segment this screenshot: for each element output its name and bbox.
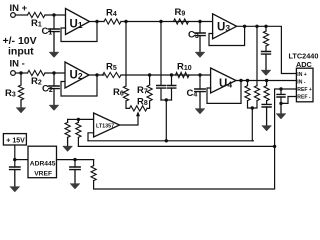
IC LTC2440 box <box>296 68 313 102</box>
node A2 junction <box>124 20 127 23</box>
svg-text:IN -: IN - <box>10 59 25 70</box>
wire U1 feedback <box>61 22 97 42</box>
node A4 junction <box>198 20 201 23</box>
wire node B3 down to cap <box>171 75 173 86</box>
capacitor C4 <box>195 89 205 92</box>
IC ADR445 VREF <box>28 146 57 178</box>
svg-text:IN -: IN - <box>297 79 306 85</box>
wire IN+ to R1 <box>15 14 27 16</box>
node B3 junction <box>170 73 173 76</box>
capacitor C2 <box>49 86 59 89</box>
resistor CM B <box>245 86 250 101</box>
svg-text:U1: U1 <box>70 19 83 31</box>
node common rail junction <box>165 139 168 142</box>
wire caps bottom to common rail <box>165 100 167 141</box>
wire IN- to R2 <box>15 72 27 74</box>
wire divider right to ref rail <box>77 137 79 146</box>
wire node B2 down to R7 <box>149 75 151 85</box>
capacitor C3 <box>195 33 205 36</box>
wire R2 to U2 +in <box>45 72 65 74</box>
svg-text:ADC: ADC <box>296 60 313 69</box>
op-amp U4 <box>211 68 236 93</box>
wire channel B rail <box>121 74 211 76</box>
ground B RC <box>266 107 268 127</box>
capacitor C1 <box>49 29 59 32</box>
svg-text:ADR445: ADR445 <box>30 160 56 167</box>
svg-text:IN +: IN + <box>297 72 307 78</box>
resistor R5 <box>103 72 122 77</box>
node U1 out junction <box>95 20 98 23</box>
resistor R10 <box>176 72 190 77</box>
wire RC B <box>266 101 268 105</box>
wire common rail <box>88 140 253 142</box>
resistor divider right <box>76 122 81 137</box>
node A3 junction <box>159 20 162 23</box>
node B1 junction <box>52 71 55 74</box>
wire divider bridge <box>68 118 79 120</box>
resistor R2 <box>28 70 46 75</box>
ground REF- <box>280 103 282 115</box>
node REF+ bypass junction <box>279 87 282 90</box>
svg-text:REF +: REF + <box>297 87 312 93</box>
ground C1 <box>53 32 55 54</box>
svg-text:LT1357: LT1357 <box>96 124 114 130</box>
node A1 junction <box>52 13 55 16</box>
op-amp U1 <box>66 9 90 35</box>
capacitor B sample <box>167 86 176 89</box>
wire U4 out to ADC IN- <box>236 80 296 82</box>
wire node A5 down <box>256 26 258 85</box>
resistor R9 <box>174 19 189 24</box>
capacitor input bypass <box>10 167 20 170</box>
resistor R1 <box>28 12 46 17</box>
wire node A3 down to cap <box>160 22 162 86</box>
wire LT1357 feedback notch <box>88 133 94 141</box>
wire REF+ riser to ADC <box>275 89 297 146</box>
wire to output cap <box>74 160 76 167</box>
ground VREF bypass <box>74 170 76 185</box>
node U3 out junction <box>243 25 246 28</box>
node CM junction <box>251 106 254 109</box>
op-amp U2 <box>65 62 89 88</box>
wire R1 to U1 +in <box>45 14 66 16</box>
node A6 junction <box>264 25 267 28</box>
wire channel A rail <box>121 21 213 23</box>
wire caps bottom bridge <box>161 99 172 101</box>
potentiometer R8 <box>130 106 148 111</box>
box +15V supply <box>3 134 26 145</box>
wire node B6 to RC <box>266 81 268 86</box>
node U4 out junction <box>239 79 242 82</box>
ground divider <box>67 137 69 147</box>
svg-text:VREF: VREF <box>34 170 52 177</box>
svg-text:REF -: REF - <box>297 95 311 101</box>
node B4 junction <box>198 73 201 76</box>
svg-text:U3: U3 <box>217 22 230 34</box>
node REF- junction <box>279 102 282 105</box>
ground C2 <box>53 89 55 107</box>
node divider junction <box>77 118 80 121</box>
resistor VREF series <box>91 166 96 181</box>
wire node B5 to R <box>247 81 249 86</box>
ground R3 <box>20 100 22 109</box>
terminal IN- <box>11 71 16 76</box>
capacitor VREF bypass <box>70 167 80 170</box>
wire REF bypass top <box>280 89 282 94</box>
node B6 junction <box>265 79 268 82</box>
wire to input cap <box>14 160 16 167</box>
capacitor A RC <box>262 52 271 55</box>
wire +15V down <box>14 145 16 160</box>
ground A RC <box>265 54 267 71</box>
wire CM node to common rail <box>251 108 253 141</box>
capacitor REF bypass <box>277 94 285 97</box>
node B5 junction <box>246 79 249 82</box>
wire node A6 to RC <box>265 26 267 31</box>
wire U4 feedback <box>207 81 241 104</box>
wire U3 out to ADC IN+ <box>237 26 297 73</box>
resistor A RC <box>263 31 268 46</box>
wire R6 to R8 <box>126 101 130 108</box>
wiper arrow R8 <box>136 111 140 116</box>
wire node A1 to C1 <box>53 15 55 29</box>
wire RC <box>265 46 267 52</box>
op-amp LT1357 <box>94 113 120 137</box>
ground C4 <box>199 92 201 110</box>
resistor R4 <box>104 19 121 24</box>
wire divider to LT1357 +in <box>78 118 93 120</box>
wire R7 to R8 <box>147 101 150 108</box>
svg-text:U4: U4 <box>219 78 232 90</box>
node B2 junction <box>148 73 151 76</box>
wire U2 out <box>89 74 104 76</box>
node +15V junction <box>13 158 16 161</box>
node A5 junction <box>255 25 258 28</box>
svg-text:U2: U2 <box>70 70 83 82</box>
wire node A4 to C3 <box>199 22 201 34</box>
wire divider right lead <box>77 119 79 122</box>
wire node B0 to R3 <box>20 73 22 85</box>
wire REF bypass bottom <box>280 97 282 103</box>
svg-text:input: input <box>8 46 34 58</box>
wire R8 wiper to LT1357 out <box>120 116 139 125</box>
wire node B1 to C2 <box>53 73 55 86</box>
op-amp U3 <box>213 14 237 39</box>
wire VREF to series R <box>93 160 95 166</box>
terminal IN+ <box>11 13 16 18</box>
node caps bottom junction <box>165 98 168 101</box>
resistor R6 <box>123 86 128 101</box>
resistor R7 <box>147 85 152 101</box>
wire cap A to bridge <box>160 88 162 100</box>
wire cap B to bridge <box>171 88 173 100</box>
wire U1 out <box>90 21 105 23</box>
ground input bypass <box>14 170 16 188</box>
node B0 junction <box>19 71 22 74</box>
svg-text:+ 15V: + 15V <box>6 137 25 144</box>
node U2 out junction <box>95 73 98 76</box>
wire U2 feedback <box>61 75 97 96</box>
resistor B RC <box>264 86 269 101</box>
capacitor B RC <box>262 104 271 107</box>
resistor divider left <box>65 122 70 137</box>
wire +15V to ADR445 <box>15 159 28 161</box>
wire CM resistors bridge <box>248 101 258 108</box>
wire node B4 to C4 <box>199 75 201 89</box>
wire REF- step to ADC <box>281 97 296 104</box>
wire divider left lead <box>67 119 69 122</box>
wire REF+ rail <box>78 145 274 147</box>
wire U3 feedback <box>209 26 245 45</box>
node VREF junction <box>73 158 76 161</box>
ground C3 <box>199 36 201 54</box>
resistor CM A <box>254 86 259 101</box>
capacitor A sample <box>157 86 166 89</box>
wire VREF bottom loop <box>94 146 275 189</box>
wire ADR445 out <box>57 159 94 161</box>
wire node A2 down to R6 <box>125 22 127 87</box>
node REF+ junction <box>273 145 276 148</box>
resistor R3 <box>18 85 23 100</box>
